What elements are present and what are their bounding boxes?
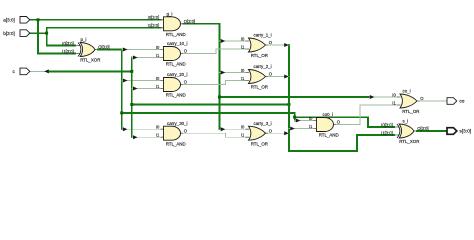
and gate carry_20_i (RTL_AND): [156, 72, 188, 98]
wire carry_2 to carry_30_i I1: [132, 136, 161, 138]
or gate carry_1_i (RTL_OR): [241, 33, 273, 59]
wire b bus up to g_i I1: [47, 28, 161, 33]
wire s_i output to s port: [417, 130, 447, 132]
wire carry concat vertical left: [131, 58, 133, 138]
svg-text:s_i: s_i: [403, 119, 409, 124]
svg-text:I1[3:0]: I1[3:0]: [62, 49, 74, 54]
wire co_i output to co port: [420, 100, 447, 102]
wire g bus from g_i output down: [183, 24, 219, 129]
svg-text:O[3:0]: O[3:0]: [98, 45, 109, 50]
wire b port to junction: [30, 32, 47, 34]
output port s[3:0]: [447, 128, 471, 135]
svg-text:carry_10_i: carry_10_i: [167, 41, 188, 46]
or gate carry_2_i (RTL_OR): [241, 64, 273, 90]
svg-text:co0_i: co0_i: [323, 112, 334, 117]
junction arrow p[0]: [123, 48, 128, 52]
svg-text:I1[3:0]: I1[3:0]: [148, 23, 160, 28]
svg-text:RTL_OR: RTL_OR: [251, 53, 268, 58]
xor gate s_i (RTL_XOR): [381, 119, 428, 145]
junction arrow g[1]: [221, 71, 226, 75]
wire p[1] to carry_20_i I0: [122, 80, 161, 82]
svg-text:RTL_AND: RTL_AND: [166, 93, 186, 98]
output port c: [13, 68, 30, 75]
svg-text:I0[3:0]: I0[3:0]: [148, 15, 160, 20]
wire carry_20_i output to carry_2_i I1: [183, 81, 245, 85]
junction b net: [45, 32, 48, 35]
junction p bus to s_i: [293, 116, 296, 119]
junction a net: [37, 18, 40, 21]
wire g[1] to carry_2_i I0: [220, 72, 246, 74]
wire g[0] to carry_1_i I0: [220, 40, 246, 42]
svg-text:RTL_AND: RTL_AND: [166, 141, 186, 146]
svg-text:RTL_AND: RTL_AND: [319, 133, 339, 138]
wire c to carry_10_i I1: [132, 57, 161, 59]
junction arrow p[2]: [123, 127, 128, 131]
svg-text:RTL_OR: RTL_OR: [251, 85, 268, 90]
input port b[3:0]: [3, 30, 29, 37]
svg-text:carry_20_i: carry_20_i: [167, 72, 188, 77]
wire a bus to g_i I0: [30, 19, 161, 21]
wire carry_1_i output join: [268, 44, 289, 46]
svg-text:RTL_AND: RTL_AND: [166, 62, 186, 67]
wire carry_10_i output to carry_1_i I1: [183, 49, 245, 54]
svg-text:g_i: g_i: [167, 12, 173, 17]
svg-text:carry_2_i: carry_2_i: [254, 64, 272, 69]
wire p bus from p_i output down: [98, 50, 122, 130]
wire carry_3_i output join: [268, 132, 289, 134]
wire b bus down to p_i I0: [47, 33, 75, 45]
wire co0_i output to co_i I1: [336, 105, 397, 125]
wire g[3] to co_i I0: [370, 96, 397, 98]
wire p bus horizontal to right vertical: [122, 113, 295, 121]
wire g[2] to carry_3_i I0: [220, 128, 246, 130]
junction arrow p[3]: [296, 119, 301, 123]
wire p bus to s_i I0: [295, 117, 394, 127]
wire g bus branch to co_i: [220, 96, 370, 98]
junction g bus branch: [218, 96, 221, 99]
svg-text:b[3:0]: b[3:0]: [3, 31, 15, 36]
and gate co0_i (RTL_AND): [309, 112, 341, 138]
junction arrow carry[0]: [133, 56, 138, 60]
svg-text:I0[3:0]: I0[3:0]: [381, 122, 393, 127]
svg-text:RTL_OR: RTL_OR: [251, 141, 268, 146]
wire p[0] to carry_10_i I0: [122, 49, 161, 51]
svg-text:RTL_AND: RTL_AND: [166, 32, 186, 37]
svg-text:a[3:0]: a[3:0]: [3, 18, 15, 23]
junction arrow carry_2 join: [284, 75, 289, 79]
svg-text:I0[3:0]: I0[3:0]: [62, 41, 74, 46]
svg-text:RTL_XOR: RTL_XOR: [80, 58, 100, 63]
xor gate p_i (RTL_XOR): [62, 37, 109, 63]
svg-text:co_i: co_i: [403, 89, 411, 94]
wire carry_1 to carry_20_i I1: [132, 88, 161, 90]
svg-text:p_i: p_i: [81, 37, 87, 42]
wire carry_3 to co0_i I1: [289, 128, 314, 130]
svg-text:RTL_OR: RTL_OR: [402, 109, 419, 114]
wire c port stub: [30, 70, 49, 72]
junction arrow carry[2]: [133, 135, 138, 139]
svg-text:carry_30_i: carry_30_i: [167, 121, 188, 126]
junction arrow g[2]: [221, 127, 226, 131]
svg-text:I1[3:0]: I1[3:0]: [381, 130, 393, 135]
wire carry concat vertical right to s_i I1: [289, 45, 394, 151]
wire carry concat horizontal: [132, 104, 289, 106]
wire carry_30_i output to carry_3_i I1: [183, 133, 245, 137]
and gate carry_10_i (RTL_AND): [156, 41, 188, 66]
junction arrow carry[1]: [133, 87, 138, 91]
svg-text:carry_1_i: carry_1_i: [254, 33, 272, 38]
junction arrow p[1]: [123, 79, 128, 83]
junction p bus branch: [120, 111, 123, 114]
input port a[3:0]: [3, 17, 29, 24]
svg-text:RTL_XOR: RTL_XOR: [399, 139, 419, 144]
svg-text:co: co: [459, 100, 464, 105]
svg-text:s[3:0]: s[3:0]: [459, 129, 471, 135]
wire a bus down to p_i I1: [38, 20, 75, 54]
junction arrow g[0]: [221, 39, 226, 43]
svg-text:carry_3_i: carry_3_i: [254, 121, 272, 126]
junction arrow g[3] bit select: [370, 95, 375, 99]
or gate co_i (RTL_OR): [392, 89, 424, 115]
junction arrow carry[3]: [290, 127, 295, 131]
wire carry_2_i output join: [268, 76, 289, 78]
and gate g_i (RTL_AND): [148, 12, 195, 38]
and gate carry_30_i (RTL_AND): [156, 121, 188, 146]
junction carry concat c branch: [130, 70, 133, 73]
junction carry concat left: [130, 103, 133, 106]
junction carry concat right: [288, 103, 291, 106]
wire carry concat to c port: [49, 70, 132, 72]
junction arrow to c port: [44, 69, 49, 73]
junction arrow carry_1 join: [284, 43, 289, 47]
wire p[3] to co0_i I0: [295, 120, 314, 122]
wire p[2] to carry_30_i I0: [122, 128, 161, 130]
output port co: [447, 98, 465, 105]
svg-text:O[3:0]: O[3:0]: [417, 126, 428, 131]
svg-text:O[3:0]: O[3:0]: [184, 19, 195, 24]
junction arrow carry_3 join: [284, 131, 289, 135]
or gate carry_3_i (RTL_OR): [241, 121, 273, 146]
